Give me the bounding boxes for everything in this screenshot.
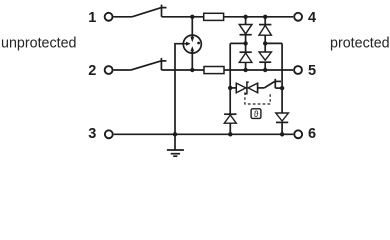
diode D4 (cathode down): [259, 43, 271, 70]
ground symbol: [167, 134, 184, 156]
svg-text:6: 6: [308, 126, 316, 142]
node junction line3 / D5: [228, 132, 232, 136]
terminal 1: [88, 10, 112, 26]
wire line1 mid segment: [162, 16, 204, 18]
diode D5 (cathode up): [224, 114, 236, 134]
node junction TVS row right: [280, 86, 284, 90]
terminal 2: [88, 63, 112, 79]
terminal 4: [294, 10, 316, 26]
wire line1 left segment: [114, 16, 133, 18]
wire line2 mid segment: [161, 69, 204, 71]
diode D3 (cathode up): [239, 43, 252, 70]
wire mid bracket right: [265, 42, 282, 44]
svg-text:unprotected: unprotected: [1, 36, 77, 52]
svg-text:5: 5: [308, 63, 316, 79]
node junction line3 / D6: [280, 132, 284, 136]
wire left rail: [229, 43, 231, 114]
node junction TVS row left: [228, 86, 232, 90]
wire mid bracket left: [230, 42, 245, 44]
wire GDT bottom stem: [191, 51, 193, 70]
TVS suppressor diode (bidirectional): [236, 82, 257, 94]
diode D6 (cathode down): [276, 113, 289, 134]
resistor R1: [204, 13, 224, 20]
terminal 3: [88, 126, 113, 142]
wire diode column A upper stem: [245, 17, 247, 25]
thermal disconnect switch S1: [132, 5, 167, 17]
svg-text:3: 3: [88, 126, 96, 142]
node junction line1 / diode column B: [263, 15, 267, 19]
node junction line1 / GDT: [190, 15, 194, 19]
node junction line2 / diode column B: [263, 68, 267, 72]
diode D2 (cathode up): [259, 25, 271, 44]
thermal disconnect switch S3: [264, 79, 281, 88]
wire line3: [114, 133, 294, 135]
diode D1 (cathode down): [239, 25, 252, 44]
svg-text:protected: protected: [330, 36, 390, 52]
wire line1 right segment: [224, 16, 294, 18]
wire line2 right segment: [224, 69, 293, 71]
node junction bracket / column B: [263, 41, 267, 45]
wire TVS row right segment: [275, 87, 282, 89]
node junction line3 / ground: [173, 132, 177, 136]
terminal 5: [294, 63, 316, 79]
resistor R2: [204, 67, 224, 74]
wire diode column B upper stem: [264, 17, 266, 25]
svg-text:ϑ: ϑ: [254, 109, 259, 119]
node junction bracket / column A: [243, 41, 247, 45]
node junction line1 / diode column A: [243, 15, 247, 19]
wire TVS to disconnect: [258, 87, 265, 89]
wire GDT top stem: [191, 17, 193, 38]
wire TVS row left segment: [230, 87, 236, 89]
node junction line2 / diode column A: [243, 68, 247, 72]
svg-text:1: 1: [88, 10, 96, 26]
thermal element box with theta: [251, 109, 261, 119]
svg-text:4: 4: [308, 10, 316, 26]
thermal coupling dashed box: [245, 92, 270, 104]
terminal 6: [294, 126, 316, 142]
thermal disconnect switch S2: [131, 58, 167, 70]
wire GDT third electrode to ground: [175, 44, 183, 135]
wire right rail: [281, 43, 283, 113]
wire line2 left segment: [114, 69, 131, 71]
svg-text:2: 2: [88, 63, 96, 79]
gas discharge tube F1: [183, 35, 202, 53]
node junction line2 / GDT: [190, 68, 194, 72]
